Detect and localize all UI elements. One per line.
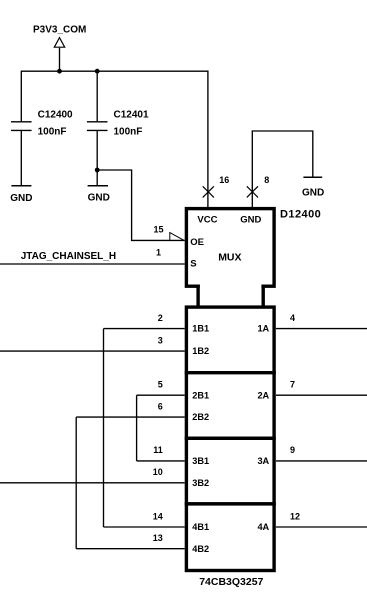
wire pin 4 (1A) [276, 328, 367, 330]
svg-text:2B1: 2B1 [192, 390, 209, 400]
svg-text:GND: GND [10, 193, 32, 204]
wire C12401 top stem [96, 71, 98, 122]
wire OE net from C12401/GND junction to pin 15 [97, 170, 185, 240]
wire pin 2 (1B1) [104, 328, 185, 330]
svg-text:74CB3Q3257: 74CB3Q3257 [199, 576, 263, 588]
svg-text:D12400: D12400 [280, 208, 321, 220]
wire P3V3 stem [59, 48, 61, 71]
wire pin 3 (1B2) long [0, 350, 185, 352]
pin 15 inverted-pin triangle [170, 233, 184, 241]
svg-text:15: 15 [153, 225, 163, 235]
wire pin 7 (2A) [276, 394, 367, 396]
svg-text:6: 6 [158, 401, 163, 411]
svg-text:1B1: 1B1 [192, 324, 209, 334]
svg-text:JTAG_CHAINSEL_H: JTAG_CHAINSEL_H [21, 251, 116, 262]
svg-text:2A: 2A [257, 390, 269, 400]
node junction dot bus/C12401 [95, 69, 100, 74]
svg-text:3A: 3A [257, 456, 269, 466]
wire C12401 bottom stem [96, 130, 98, 185]
svg-text:8: 8 [264, 175, 269, 185]
wire pin 10 (3B2) long [0, 482, 185, 484]
svg-text:4: 4 [290, 313, 295, 323]
svg-text:100nF: 100nF [38, 127, 67, 138]
wire P3V3 bus to VCC pin [21, 71, 208, 207]
wire pin 5 (2B1) [137, 394, 185, 396]
svg-text:GND: GND [240, 215, 261, 226]
wire pin 13 (4B2) [76, 548, 185, 550]
ground GND (middle) [88, 185, 108, 187]
svg-text:2B2: 2B2 [192, 412, 209, 422]
svg-text:C12401: C12401 [114, 110, 149, 121]
neck left vertical [196, 285, 199, 308]
svg-text:7: 7 [290, 380, 295, 390]
ground GND (left) [11, 185, 31, 187]
svg-text:13: 13 [153, 533, 163, 543]
wire C12400 top stem [20, 71, 22, 122]
svg-text:4B2: 4B2 [192, 544, 209, 554]
erase middle of top-box bottom edge for neck [200, 284, 262, 290]
wire net vertical pins 6-13 [75, 417, 77, 549]
wire pin 14 (4B1) [104, 526, 185, 528]
svg-text:3B2: 3B2 [192, 478, 209, 488]
svg-text:4B1: 4B1 [192, 522, 209, 532]
no-connect X on pin 16 [203, 186, 214, 197]
svg-text:3: 3 [158, 335, 163, 345]
svg-text:MUX: MUX [218, 252, 241, 264]
svg-text:100nF: 100nF [114, 127, 143, 138]
svg-text:C12400: C12400 [38, 110, 73, 121]
wire JTAG_CHAINSEL_H to pin 1 [0, 263, 185, 265]
svg-text:10: 10 [153, 467, 163, 477]
wire pin 8 GND loop [252, 131, 312, 207]
svg-text:1A: 1A [257, 324, 269, 334]
svg-text:16: 16 [219, 175, 229, 185]
no-connect X on pin 8 [247, 186, 258, 197]
mux section box 3 [186, 438, 274, 504]
wire C12400 bottom stem [20, 130, 22, 185]
svg-text:GND: GND [302, 188, 324, 199]
svg-text:S: S [190, 258, 196, 269]
wire net vertical pins 5-11 [136, 395, 138, 461]
op/mux chip D12400 top box [186, 209, 274, 287]
svg-text:P3V3_COM: P3V3_COM [33, 25, 86, 36]
mux section box 4 [186, 504, 274, 571]
wire pin 12 (4A) [276, 526, 367, 528]
svg-text:12: 12 [290, 511, 300, 521]
mux section box 1 [186, 307, 274, 373]
node junction dot OE branch [95, 168, 100, 173]
mux section box 2 [186, 373, 274, 439]
svg-text:OE: OE [190, 237, 204, 248]
capacitor C12401 [87, 122, 108, 131]
svg-text:VCC: VCC [197, 215, 217, 226]
power symbol P3V3_COM triangle [54, 38, 64, 48]
neck right vertical [262, 285, 265, 308]
svg-text:3B1: 3B1 [192, 456, 209, 466]
svg-text:14: 14 [153, 511, 163, 521]
node junction dot bus/P3V3 [57, 69, 62, 74]
svg-text:5: 5 [158, 380, 163, 390]
wire pin 9 (3A) [276, 460, 367, 462]
svg-text:1B2: 1B2 [192, 346, 209, 356]
wire pin 6 (2B2) [76, 416, 185, 418]
svg-text:1: 1 [156, 247, 161, 257]
svg-text:9: 9 [290, 445, 295, 455]
ground GND (right) [303, 176, 322, 178]
wire pin 11 (3B1) [137, 460, 185, 462]
svg-text:GND: GND [88, 193, 110, 204]
svg-text:4A: 4A [257, 522, 269, 532]
wire net vertical pins 2-14 [103, 329, 105, 527]
svg-text:2: 2 [158, 313, 163, 323]
capacitor C12400 [11, 122, 32, 131]
svg-text:11: 11 [153, 445, 163, 455]
